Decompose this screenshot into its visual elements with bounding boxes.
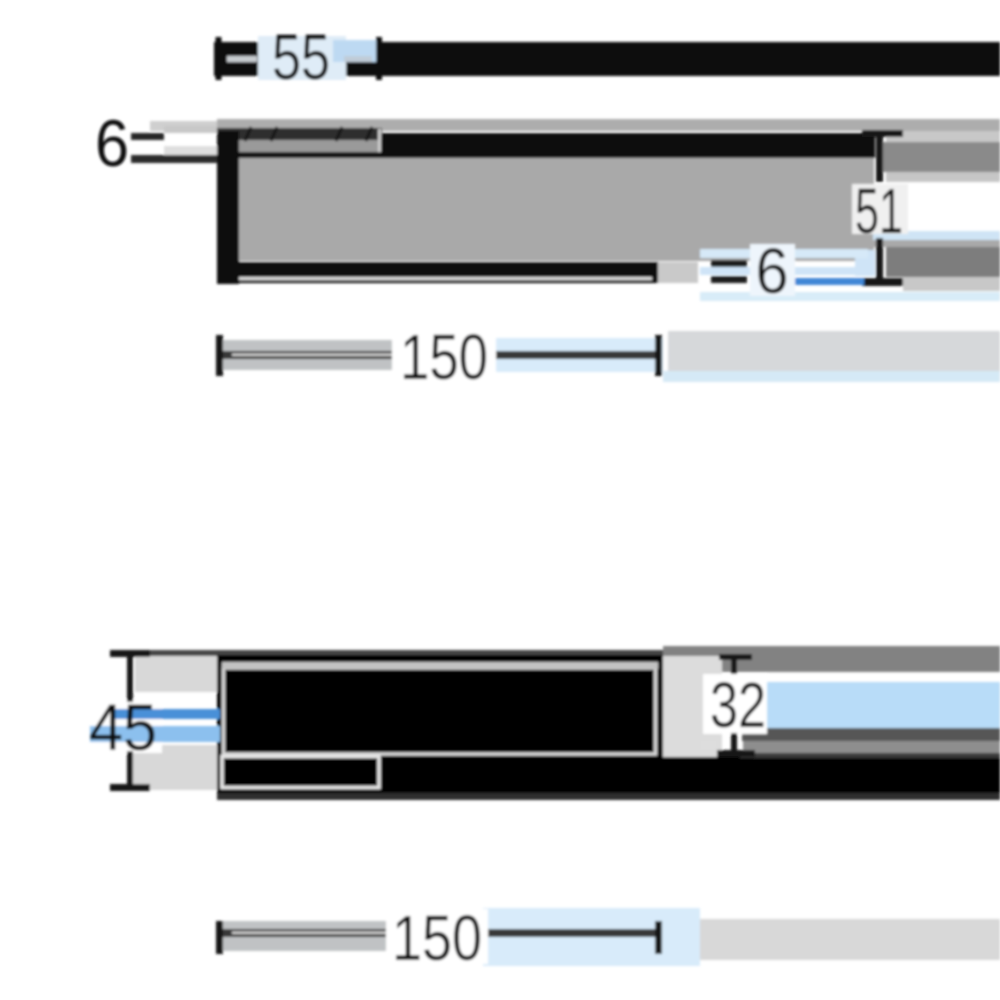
dim 45 text knockout — [92, 700, 162, 753]
svg-text:6: 6 — [756, 235, 789, 307]
dim 6 right blue line — [788, 278, 864, 285]
dim 51 top tick — [862, 130, 903, 137]
profile top wall solid right part — [380, 133, 875, 158]
bottom view main body inset outline — [224, 668, 656, 754]
dim 6 right upper dash — [711, 260, 747, 267]
bottom wall white groove — [223, 277, 652, 280]
dim 45 top tick — [110, 650, 150, 657]
bottom view main body — [217, 655, 663, 757]
dim 150 bottom pale blue — [483, 908, 700, 966]
dim 45 gray patch upper — [135, 656, 217, 692]
dim 32 lower dark band — [740, 753, 1000, 758]
dim 150 top line — [218, 351, 658, 359]
dim 51 gray band — [871, 240, 1000, 247]
dim 55 text background box — [258, 36, 346, 80]
dim 6 right pale band upper — [700, 249, 868, 258]
dim 150 top gray band right — [668, 331, 1000, 371]
bracket separator light line — [378, 129, 381, 152]
svg-text:51: 51 — [855, 175, 903, 247]
bottom view base band (cropped at right edge) — [217, 757, 1000, 793]
dim 150 bottom gray halo left — [217, 921, 400, 951]
dim 150 top pale blue band right — [663, 371, 1000, 382]
dim 150 bottom line white core — [232, 932, 407, 935]
profile interior gray fill — [238, 158, 874, 261]
dim 55 left dash — [227, 56, 257, 62]
band above continuation — [886, 131, 1000, 142]
dim 51 text knockout — [852, 184, 908, 234]
dim 32 dark smear band — [742, 728, 1000, 741]
bracket top bar (55 piece) — [217, 128, 382, 140]
dim 45 strong blue band — [112, 709, 220, 719]
bottom view extension top line — [148, 650, 745, 656]
dim 51 pale blue left of stem — [855, 250, 875, 276]
dim 55 left tick — [216, 37, 222, 80]
dim 150 top left tick — [216, 335, 223, 376]
bottom wall gray stub — [658, 262, 698, 283]
dim 6 right pale band lower — [700, 267, 868, 275]
left dim 6 upper gray connector — [164, 126, 217, 133]
top wall gray continuation to right edge — [880, 142, 1000, 172]
dim 150 top text knockout — [392, 330, 496, 382]
left dim 6 upper dash — [131, 133, 164, 140]
dim 51 stem upper — [876, 134, 883, 182]
dim 32 stem upper — [731, 658, 737, 674]
dim 150 top pale blue mid — [420, 338, 663, 372]
hatch mark 4 — [366, 127, 372, 141]
dim 6 right lower dash — [711, 276, 747, 283]
dim 51 pale blue lower band — [700, 292, 1000, 301]
svg-text:150: 150 — [392, 902, 482, 974]
hatch mark 2 — [271, 127, 277, 141]
dim 6 right text knockout — [750, 244, 795, 296]
top cover bar (side view, cropped at right edge) — [214, 42, 1000, 76]
dim 150 top line white core — [232, 354, 422, 357]
bracket light gap — [232, 140, 378, 152]
dim 32 text knockout — [703, 674, 767, 734]
dim 45 stem upper — [127, 656, 133, 702]
dim 51 pale blue band — [873, 231, 1000, 240]
dim 51 dark smear band — [886, 247, 1000, 277]
dim 150 bottom right tick — [655, 921, 662, 954]
band below continuation — [886, 172, 1000, 182]
left dim 6 lower dash — [131, 155, 217, 163]
hatch mark 3 — [336, 127, 342, 141]
dim 51 lower gray band — [903, 277, 1000, 291]
gray halo band above top wall — [217, 119, 1000, 131]
dim 55 blue patch — [333, 40, 381, 62]
dim 32 bottom tick — [717, 750, 755, 757]
dim 150 top right tick — [655, 335, 662, 376]
dim 45 gray patch lower — [133, 745, 217, 790]
dim 150 bottom line — [218, 929, 660, 937]
bottom view right gray band — [663, 656, 722, 760]
svg-text:6: 6 — [95, 106, 129, 180]
dim 51 bottom tick — [862, 278, 903, 286]
hatch mark 1 — [245, 127, 251, 141]
dim 32 stem lower — [731, 733, 737, 753]
profile bottom wall — [217, 262, 658, 283]
svg-text:45: 45 — [89, 690, 157, 764]
svg-text:32: 32 — [710, 669, 766, 741]
svg-text:150: 150 — [400, 321, 488, 393]
bottom view base band fade — [217, 793, 1000, 800]
dim 150 top gray halo left — [217, 340, 420, 370]
profile left wall — [217, 131, 239, 284]
dim 32 pale blue band — [766, 682, 1000, 728]
dim 150 bottom left tick — [216, 921, 223, 954]
dim 45 bottom tick — [110, 784, 150, 791]
svg-text:55: 55 — [272, 21, 330, 93]
dim 51 stem lower — [876, 238, 883, 280]
dim 55 right dash — [344, 56, 372, 62]
bottom view top groove — [222, 662, 658, 669]
dim 32 top tick — [719, 654, 752, 660]
dim 45 medium blue band — [90, 726, 220, 742]
dim 150 bottom gray band right — [700, 919, 1000, 960]
dim 55 right tick — [376, 37, 382, 80]
inner top wall line — [237, 152, 382, 163]
dim 150 bottom text knockout — [386, 909, 488, 964]
light patch left of 32 bottom tick — [700, 740, 717, 750]
dim 45 stem lower — [127, 751, 133, 788]
dim 32 medium smear band — [743, 741, 1000, 754]
bottom view step inset outline — [222, 757, 379, 788]
bottom view gray band right of top edge — [663, 646, 1000, 672]
left dim 6 lower gray connector — [164, 146, 217, 156]
